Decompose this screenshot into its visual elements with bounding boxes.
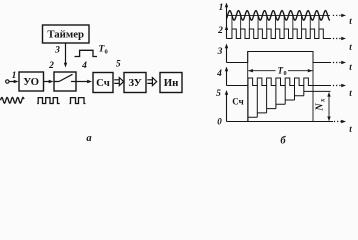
svg-text:0: 0	[284, 70, 287, 77]
block counter (Сч)	[93, 73, 113, 93]
svg-text:t: t	[349, 124, 352, 134]
gate end alignment line	[312, 52, 314, 122]
svg-text:x: x	[319, 98, 327, 103]
axis row1 horizontal	[227, 14, 331, 16]
svg-text:3: 3	[54, 46, 60, 56]
svg-text:Таймер: Таймер	[47, 29, 84, 41]
axis vertical rows 1-2	[226, 4, 228, 39]
svg-text:1: 1	[12, 71, 17, 81]
double (bus) arrow memory to indicator	[147, 78, 156, 86]
svg-text:3: 3	[217, 47, 223, 57]
label Nx (rotated)	[315, 98, 327, 112]
svg-text:ЗУ: ЗУ	[128, 77, 141, 89]
T0 measurement double arrow	[248, 69, 312, 72]
block switch (key)	[54, 72, 76, 91]
axis vertical row 3	[226, 45, 228, 63]
svg-text:б: б	[280, 136, 286, 147]
input noise waveform symbol	[1, 97, 25, 103]
svg-text:Сч: Сч	[96, 77, 110, 89]
svg-text:Ин: Ин	[164, 77, 179, 89]
svg-text:0: 0	[105, 49, 108, 56]
svg-text:t: t	[349, 16, 352, 26]
svg-text:5: 5	[216, 89, 221, 99]
gate pulse waveform row 3	[227, 52, 332, 63]
svg-text:t: t	[349, 88, 352, 98]
row3 axis dots and arrow, label t	[333, 62, 334, 63]
svg-text:0: 0	[217, 117, 222, 127]
axis vertical row 5	[226, 92, 228, 122]
svg-text:1: 1	[219, 3, 224, 13]
T0 gate pulse symbol	[75, 45, 108, 57]
block indicator (Ин)	[160, 73, 182, 93]
svg-text:2: 2	[48, 61, 54, 71]
zero-crossing drop lines row1 to row2	[232, 15, 319, 29]
square pulse train row 2	[227, 29, 332, 39]
row4 axis dots and arrow, label t	[333, 85, 334, 86]
label T0	[278, 66, 287, 78]
svg-text:5: 5	[116, 60, 121, 70]
svg-text:Сч: Сч	[232, 97, 243, 107]
block UO (УО)	[19, 72, 44, 91]
svg-text:2: 2	[217, 26, 223, 36]
staircase counter waveform row 5	[248, 86, 331, 122]
svg-text:УО: УО	[23, 76, 39, 88]
row2 axis dots and arrow, label t	[333, 38, 334, 39]
svg-text:t: t	[349, 62, 352, 72]
axis vertical row 4	[226, 68, 228, 86]
double (bus) arrow counter to memory, node 5	[114, 60, 123, 86]
gate start alignment line	[247, 52, 249, 122]
axis arrow row 2	[225, 25, 228, 30]
input arrow, node 1	[9, 71, 19, 83]
row1 axis dots and arrow, label t	[333, 15, 334, 16]
svg-text:4: 4	[81, 61, 87, 71]
sine waveform row 1	[227, 11, 331, 21]
input terminal circle	[6, 80, 9, 83]
svg-text:t: t	[349, 42, 352, 52]
wire timer to switch, node 3	[54, 43, 67, 68]
gated pulse burst row 4	[227, 78, 332, 86]
svg-text:а: а	[86, 133, 91, 144]
block memory (ЗУ)	[124, 73, 146, 93]
Nx measurement double arrow	[327, 92, 330, 121]
pulse waveform symbol after UO	[37, 98, 60, 104]
svg-text:N: N	[315, 103, 326, 112]
svg-text:4: 4	[216, 69, 222, 79]
axis arrow row 1	[225, 3, 228, 8]
axis row5 horizontal	[227, 121, 334, 123]
arrow UO to switch, node 2	[44, 61, 55, 83]
block U-timer (Таймер)	[43, 25, 90, 43]
pulse waveform symbol after switch	[70, 98, 86, 104]
arrow switch to counter, node 4	[76, 61, 92, 83]
